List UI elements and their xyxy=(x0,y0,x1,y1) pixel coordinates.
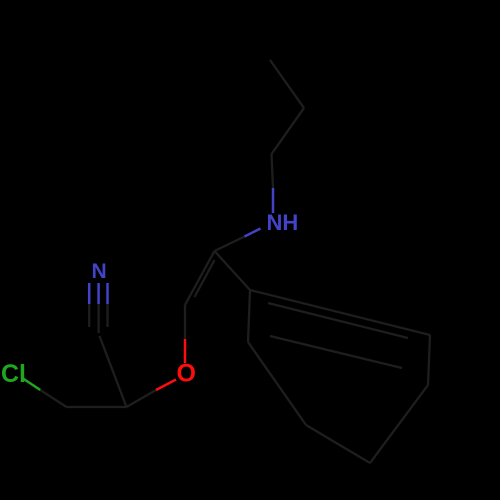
nitrile triple bond nitrogen half left line xyxy=(88,283,91,304)
wire C3-N carbon half xyxy=(215,237,245,252)
wire C4=C3 double bond inner xyxy=(195,260,215,297)
wire C3 to ring V1 xyxy=(215,251,251,290)
wire C2-O carbon half xyxy=(127,390,157,407)
ring edge V6-V1 left vertical xyxy=(248,290,250,342)
wire N-C5 carbon half vertical xyxy=(272,154,274,188)
wire C5-C6 xyxy=(272,108,305,154)
svg-text:NH: NH xyxy=(267,210,299,235)
svg-text:Cl: Cl xyxy=(1,360,26,388)
nitrile triple bond carbon half center line xyxy=(97,304,99,333)
ring edge V5-V6 xyxy=(248,342,306,425)
ring edge V1-V2 inner double line xyxy=(268,303,408,338)
wire N-C5 nitrogen half vertical xyxy=(272,188,275,213)
wire C2-C1 nitrile carbon bond xyxy=(100,336,127,407)
wire CH2-C2 horizontal bond xyxy=(67,406,127,408)
ring edge V5-V6 inner double line xyxy=(270,336,402,368)
nitrile triple bond nitrogen half right line xyxy=(106,283,109,304)
wire Cl-CH2 carbon half xyxy=(40,390,66,407)
wire C2-O oxygen half xyxy=(156,380,176,391)
wire O-C4 oxygen half vertical xyxy=(184,339,187,363)
ring edge V3-V4 xyxy=(370,385,428,463)
ring edge V2-V3 right vertical xyxy=(428,335,430,385)
wire C4=C3 double bond main xyxy=(185,251,215,305)
svg-text:O: O xyxy=(177,360,196,388)
wire O-C4 carbon half vertical xyxy=(184,305,186,339)
svg-text:N: N xyxy=(92,260,107,283)
ring edge V1-V2 long top xyxy=(250,290,430,335)
ring edge V4-V5 bottom xyxy=(306,425,370,463)
wire C6-C7 xyxy=(270,60,304,108)
nitrile triple bond carbon half left line xyxy=(88,304,90,327)
wire C3-N nitrogen half xyxy=(245,229,261,237)
wire Cl-CH2 colored half xyxy=(23,379,40,391)
nitrile triple bond nitrogen half center line xyxy=(97,283,100,304)
nitrile triple bond carbon half right line xyxy=(106,304,108,327)
